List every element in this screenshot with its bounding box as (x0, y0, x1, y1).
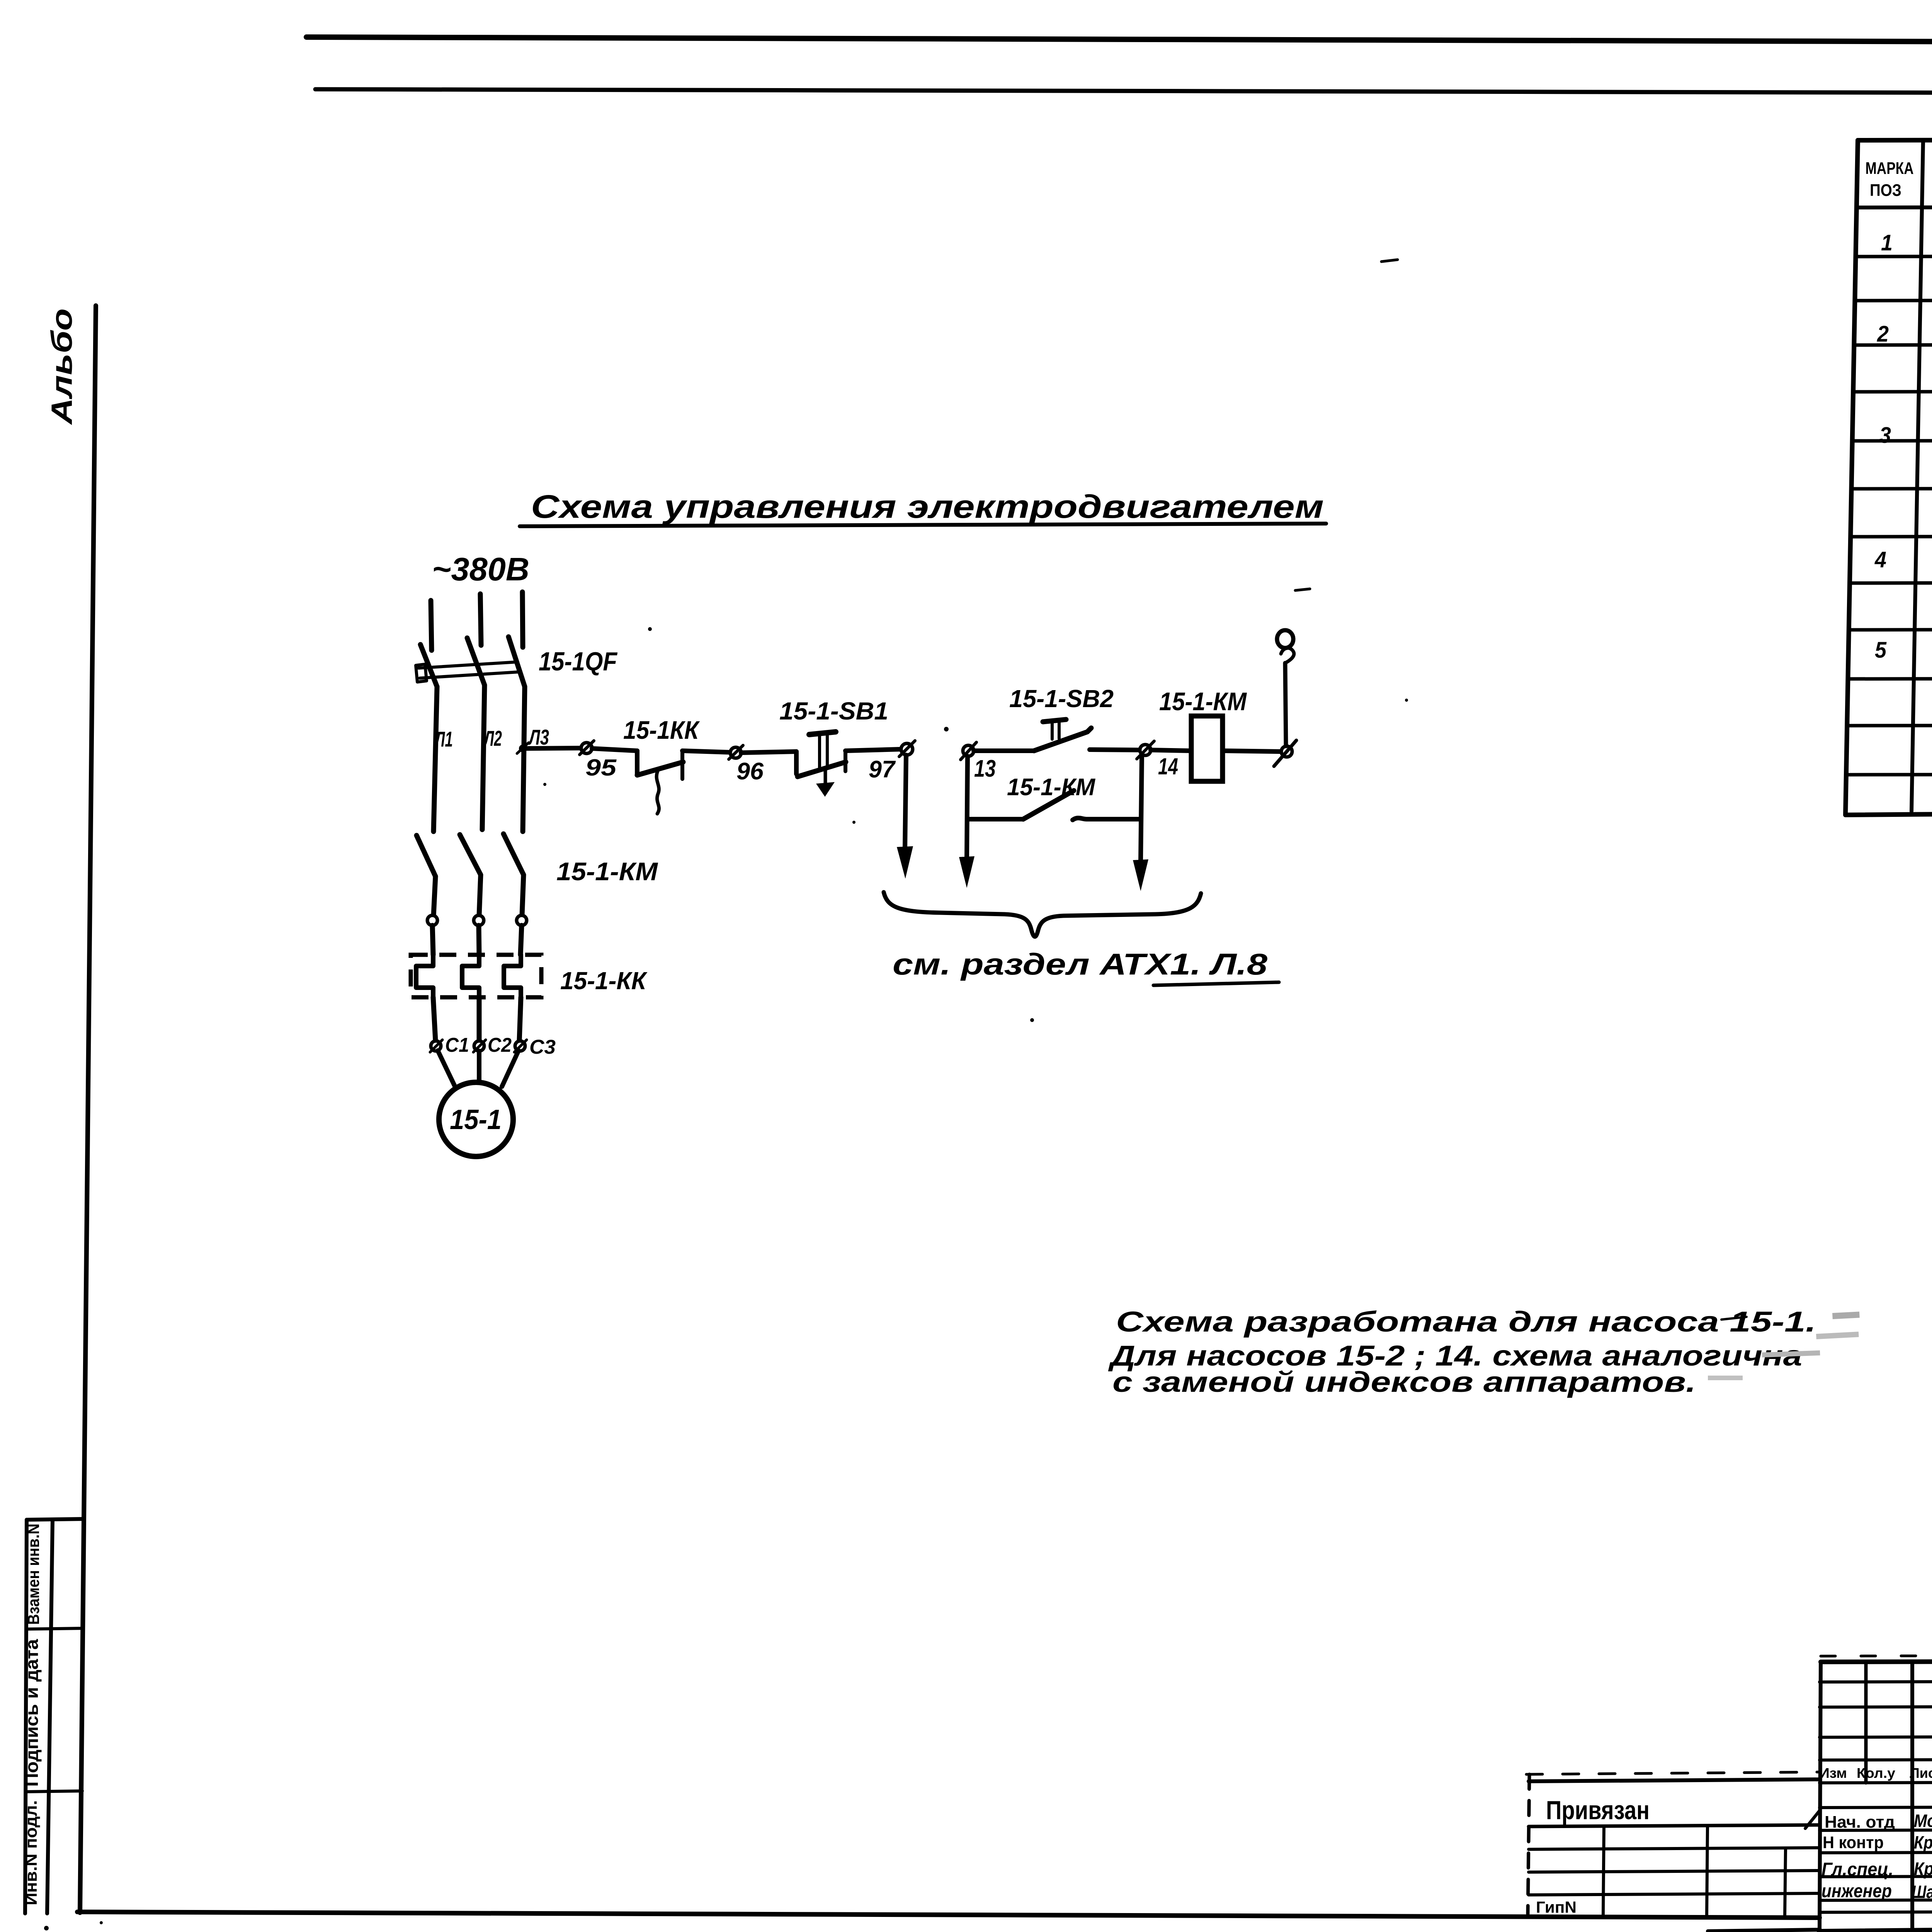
spec header MARKA POZ (1866, 159, 1914, 200)
label 15-1-SB1 (779, 697, 888, 725)
svg-text:1: 1 (1881, 230, 1893, 255)
wires terminals to motor (438, 1051, 519, 1087)
label C3 (529, 1036, 556, 1058)
svg-text:Н контр: Н контр (1823, 1833, 1884, 1852)
label 13 (974, 755, 996, 782)
note see section ATX1 L8 (893, 947, 1279, 985)
stop button 15-1-SB1 (796, 732, 846, 797)
svg-text:15-1-КМ: 15-1-КМ (1007, 774, 1095, 801)
label L3 (528, 725, 549, 749)
svg-text:С3: С3 (529, 1036, 556, 1058)
terminal at coil output (1274, 740, 1296, 766)
svg-text:3: 3 (1879, 423, 1891, 448)
svg-text:14: 14 (1158, 753, 1178, 779)
svg-text:Л1: Л1 (434, 727, 453, 751)
auxiliary contact 15-1-KM (968, 791, 1141, 820)
svg-text:15-1-КК: 15-1-КК (560, 967, 648, 995)
terminal 97 (899, 741, 915, 757)
rotated label Vzamen inv.N (24, 1524, 43, 1625)
svg-text:инженер: инженер (1821, 1881, 1892, 1901)
svg-text:Инв.N подл.: Инв.N подл. (22, 1800, 41, 1905)
svg-text:15-1КК: 15-1КК (623, 716, 700, 744)
brace external circuit (884, 892, 1201, 937)
svg-text:МАРКА: МАРКА (1866, 159, 1914, 178)
svg-text:Взамен инв.N: Взамен инв.N (24, 1524, 43, 1625)
terminal 95 (580, 741, 594, 755)
circuit breaker 15-1QF (416, 637, 525, 687)
wire phase 2 lower (482, 685, 485, 830)
svg-text:Л3: Л3 (528, 725, 549, 749)
contactor power contacts 15-1-KM (417, 834, 527, 925)
svg-text:96: 96 (736, 758, 764, 785)
wire KK to terminal 96 (682, 751, 730, 752)
spec table data rows (1874, 227, 1932, 747)
rotated label Inv.N podl (22, 1800, 41, 1905)
vertical label Albo (46, 308, 78, 425)
svg-text:Подпись и дата: Подпись и дата (22, 1639, 42, 1787)
motor terminal C2 (473, 1040, 486, 1052)
terminal 96 (729, 745, 743, 759)
left mini table frame (25, 1519, 84, 1913)
svg-text:Молчанов: Молчанов (1914, 1811, 1932, 1831)
note text line 2 (1108, 1340, 1802, 1372)
label 95 (585, 755, 617, 781)
svg-text:15-1: 15-1 (450, 1104, 502, 1135)
wire 13 external link down (959, 756, 975, 888)
label 15-1QF (539, 647, 617, 676)
svg-text:Кол.у: Кол.у (1857, 1765, 1895, 1781)
svg-text:Шахбанова: Шахбанова (1912, 1882, 1932, 1902)
svg-text:5: 5 (1875, 638, 1887, 663)
signoff rows grid (1805, 1807, 1932, 1912)
label 15-1KK (623, 716, 700, 744)
svg-text:Гл.спец.: Гл.спец. (1821, 1859, 1893, 1880)
schematic title (520, 488, 1326, 526)
terminal 13 (961, 742, 976, 760)
wire SB1 to terminal 97 (845, 749, 900, 751)
svg-text:С2: С2 (488, 1034, 512, 1056)
thermal relay contact 15-1KK (637, 751, 683, 814)
svg-text:ПОЗ: ПОЗ (1870, 181, 1901, 200)
wire SB2 to terminal 14 (1090, 750, 1140, 750)
svg-text:Альбо: Альбо (46, 308, 78, 425)
terminal 14 (1137, 741, 1154, 759)
note text line 1 (1116, 1306, 1816, 1338)
wire 13 to SB2 (974, 748, 1034, 753)
title block revision mini-grid (1820, 1662, 1932, 1932)
label 14 (1158, 753, 1178, 779)
phase line L2 upper stub (480, 594, 481, 645)
motor terminal C1 (430, 1040, 442, 1052)
label 96 (736, 758, 764, 785)
phase line L3 upper stub (522, 592, 523, 647)
wires KM to KK heaters (432, 925, 522, 955)
svg-text:4: 4 (1874, 547, 1886, 572)
wire 14 external link down (1133, 755, 1148, 891)
svg-text:15-1-КМ: 15-1-КМ (556, 857, 658, 886)
privyazan table (1526, 1772, 1820, 1916)
node L3 junction (517, 743, 529, 753)
wire 97 external link down (897, 755, 913, 879)
svg-text:2: 2 (1877, 321, 1889, 347)
svg-text:15-1-КМ: 15-1-КМ (1159, 687, 1247, 716)
label C2 (488, 1034, 512, 1056)
label power 15-1-KK (560, 967, 648, 995)
label 15-1-SB2 (1009, 685, 1114, 713)
contactor coil 15-1-KM (1191, 716, 1223, 781)
svg-text:Нач. отд: Нач. отд (1825, 1813, 1895, 1832)
svg-text:Изм: Изм (1819, 1765, 1847, 1781)
svg-text:Схема управления электродвигат: Схема управления электродвигателем (531, 488, 1324, 525)
thermal relay heaters 15-1-KK (411, 955, 541, 997)
specification table grid (1845, 139, 1932, 815)
svg-text:Привязан: Привязан (1546, 1796, 1650, 1825)
label Privyazan (1546, 1796, 1650, 1825)
label C1 (445, 1034, 469, 1056)
svg-text:13: 13 (974, 755, 996, 782)
phase line L1 upper stub (431, 600, 432, 650)
frame left vertical (80, 306, 96, 1913)
note text line 3 (1112, 1366, 1696, 1398)
motor terminal C3 (514, 1040, 527, 1052)
revision strip headers (1819, 1765, 1932, 1781)
svg-text:С1: С1 (445, 1034, 469, 1056)
svg-text:15-1QF: 15-1QF (539, 647, 617, 676)
note smudges (1708, 1311, 1860, 1380)
rotated label Podpis i data (22, 1639, 42, 1787)
wires KK to motor terminals (433, 997, 521, 1041)
supply label ~380V (432, 551, 529, 587)
svg-text:Схема разработана для насоса 1: Схема разработана для насоса 15-1. (1116, 1306, 1816, 1338)
motor 15-1 (439, 1082, 513, 1156)
title block outer frame (1708, 1654, 1932, 1932)
label L2 (483, 726, 502, 750)
start button 15-1-SB2 (1034, 719, 1091, 751)
signoff roles and names (1821, 1811, 1932, 1902)
label GipN (1536, 1898, 1577, 1916)
wire 14 to coil (1151, 750, 1191, 751)
svg-text:97: 97 (869, 756, 896, 783)
label motor 15-1 (450, 1104, 502, 1135)
svg-text:~380В: ~380В (432, 551, 529, 587)
page frame top line 1 (306, 36, 1932, 45)
svg-text:см. раздел АТХ1. Л.8: см. раздел АТХ1. Л.8 (893, 947, 1268, 981)
svg-text:с заменой индексов аппаратов.: с заменой индексов аппаратов. (1112, 1366, 1696, 1398)
svg-text:15-1-SB1: 15-1-SB1 (779, 697, 888, 725)
label aux 15-1-KM (1007, 774, 1095, 801)
wire phase 1 lower (434, 687, 437, 832)
wire L3 to terminal 95 (523, 748, 581, 748)
wire 95 to KK contact (592, 748, 637, 751)
frame bottom line (77, 1912, 1820, 1918)
svg-text:Крживанек: Крживанек (1914, 1859, 1932, 1879)
label L1 (434, 727, 453, 751)
wire 96 to SB1 (741, 752, 796, 753)
wire up to O terminal (1281, 648, 1294, 746)
svg-text:95: 95 (585, 755, 617, 781)
svg-text:ГипN: ГипN (1536, 1898, 1577, 1916)
svg-text:Лист: Лист (1910, 1765, 1932, 1781)
svg-text:Крживанек: Крживанек (1914, 1832, 1932, 1852)
label 97 (869, 756, 896, 783)
label coil 15-1-KM (1159, 687, 1247, 716)
svg-text:15-1-SB2: 15-1-SB2 (1009, 685, 1114, 713)
page frame top line 2 (315, 89, 1932, 94)
label power 15-1-KM (556, 857, 658, 886)
wire phase 3 lower (523, 687, 525, 832)
svg-text:Л2: Л2 (483, 726, 502, 750)
wire coil to terminal O (1223, 751, 1280, 752)
terminal O (1277, 630, 1293, 648)
